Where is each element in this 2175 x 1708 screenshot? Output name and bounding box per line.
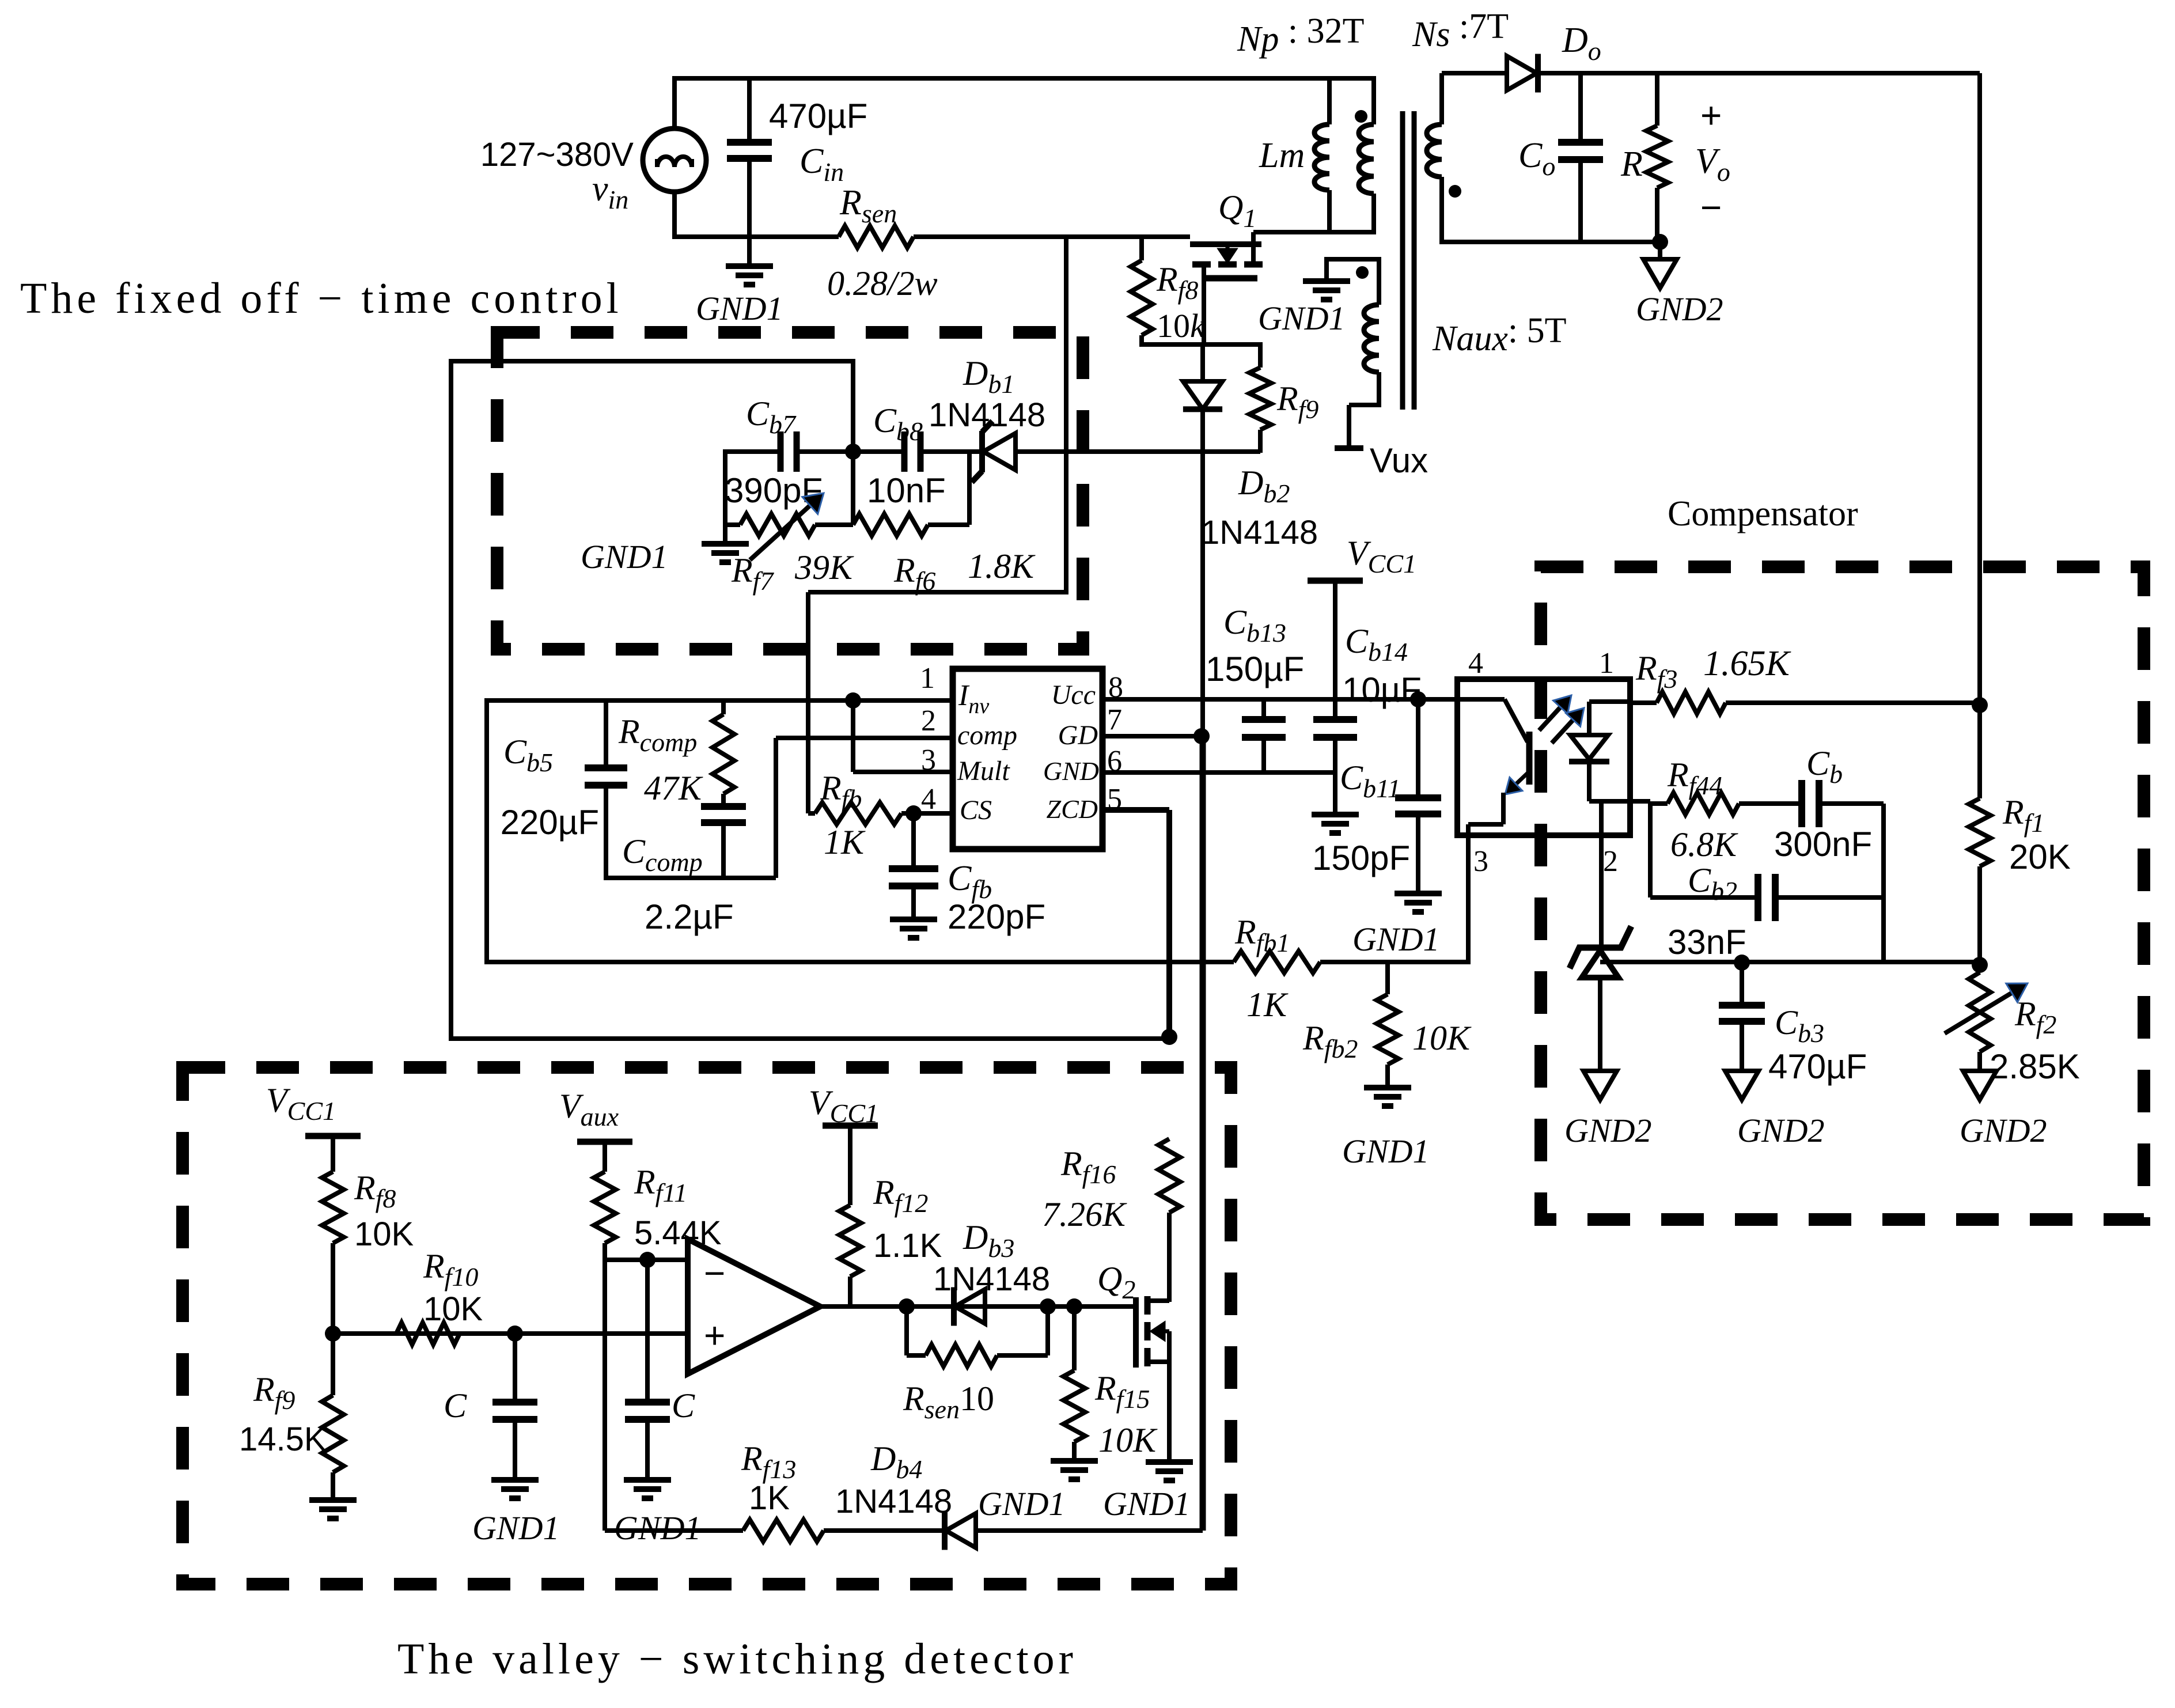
ground GND1 under Rfb2 bbox=[1364, 1088, 1411, 1106]
wire node to Rf9 corner bbox=[1258, 342, 1263, 368]
label 1N4148 Db3 bbox=[933, 1260, 1050, 1298]
ground GND2 output bbox=[1643, 259, 1677, 288]
label 10uF bbox=[1342, 671, 1422, 709]
svg-text:3: 3 bbox=[1473, 845, 1488, 878]
opto light arrows bbox=[1539, 695, 1584, 743]
label Ccomp bbox=[622, 832, 703, 877]
resistor Rcomp bbox=[713, 700, 734, 806]
zener TL431 bbox=[1570, 926, 1631, 978]
wire Inv feedback drop bbox=[484, 698, 489, 964]
label GND2 under Rf2 bbox=[1960, 1112, 2047, 1149]
label GND1 under C right bbox=[614, 1509, 701, 1547]
resistor Rfb2 bbox=[1377, 962, 1399, 1086]
wire vin top lead bbox=[672, 76, 677, 130]
label Do bbox=[1562, 21, 1601, 66]
pin number 8 bbox=[1108, 671, 1123, 704]
resistor Rf2 rheostat bbox=[1945, 965, 2028, 1071]
wire right rail top bbox=[1539, 71, 1980, 75]
label 10K Rf15 bbox=[1098, 1421, 1158, 1459]
label 14.5K bbox=[239, 1421, 327, 1458]
label Cb bbox=[1806, 744, 1843, 789]
capacitor Cin bbox=[727, 76, 772, 265]
resistor Rsen bbox=[839, 226, 914, 248]
wire bottom rail left bbox=[675, 234, 839, 239]
caption Compensator bbox=[1668, 494, 1858, 533]
svg-text:10K: 10K bbox=[423, 1290, 483, 1328]
wire pin8 Ucc line bbox=[1102, 697, 1457, 702]
wire pin1 to pin3 link bbox=[851, 700, 855, 772]
label 220uF bbox=[501, 803, 599, 842]
svg-text:7: 7 bbox=[1107, 703, 1122, 736]
svg-text:10nF: 10nF bbox=[867, 471, 946, 510]
supply Vaux bbox=[577, 1139, 632, 1145]
label Cb3 bbox=[1775, 1003, 1824, 1048]
label Rf44 bbox=[1667, 756, 1722, 800]
label Cb2 bbox=[1688, 861, 1737, 906]
label 470uF Cb3 bbox=[1768, 1047, 1867, 1086]
svg-text:GND1: GND1 bbox=[1258, 300, 1345, 337]
label GND1 under Cin bbox=[696, 290, 783, 327]
svg-text:470µF: 470µF bbox=[769, 97, 867, 135]
svg-text:150pF: 150pF bbox=[1312, 839, 1410, 877]
junction dot C right bbox=[639, 1252, 655, 1268]
wire Q1 drain to primary bbox=[1253, 230, 1374, 234]
ground GND1 at Rf7 bbox=[702, 544, 749, 562]
label C right bbox=[672, 1387, 695, 1425]
junction dot Cb7 Cb8 bbox=[845, 444, 861, 460]
transformer core bbox=[1403, 111, 1414, 410]
svg-text:1: 1 bbox=[1599, 647, 1614, 680]
transistor Q1 bbox=[1190, 232, 1263, 347]
label 127~380V bbox=[480, 136, 634, 173]
svg-text:10K: 10K bbox=[354, 1215, 414, 1253]
label 1N4148 Db1 bbox=[929, 396, 1045, 434]
svg-text:5.44K: 5.44K bbox=[634, 1214, 722, 1252]
wire comp drop bbox=[774, 738, 778, 878]
IC pin label ZCD bbox=[1047, 794, 1098, 824]
dashed box compensator bbox=[1541, 567, 2144, 1220]
label Vo bbox=[1695, 142, 1730, 187]
label Rsen bbox=[839, 183, 897, 228]
label Rf12 bbox=[873, 1173, 928, 1218]
svg-text:10K: 10K bbox=[1412, 1019, 1472, 1057]
wire right rail down bbox=[1977, 73, 1982, 705]
voltage source vin bbox=[643, 128, 706, 192]
svg-text:2: 2 bbox=[921, 705, 936, 737]
ground GND1 under Q2 bbox=[1146, 1462, 1193, 1480]
dashed box valley detector bbox=[183, 1067, 1231, 1584]
phase dot secondary bbox=[1449, 185, 1461, 198]
label GND1 under C left bbox=[472, 1509, 559, 1547]
wire Naux top to ground bbox=[1327, 257, 1381, 280]
label 150uF Cb13 bbox=[1206, 650, 1304, 688]
svg-text:+: + bbox=[1700, 94, 1722, 136]
label VCC1 valley left bbox=[266, 1081, 336, 1126]
ground GND1 at Naux bbox=[1303, 281, 1350, 300]
transformer primary winding bbox=[1359, 76, 1374, 234]
wire CS feed horizontal bbox=[808, 590, 1066, 594]
wire Q1 source node bbox=[1142, 342, 1260, 347]
label 20K bbox=[2009, 838, 2071, 876]
svg-text:0.28/2w: 0.28/2w bbox=[827, 264, 938, 302]
svg-text:GND2: GND2 bbox=[1960, 1112, 2047, 1149]
transistor Q2 bbox=[1136, 1213, 1169, 1461]
opto pin number 4 bbox=[1468, 647, 1483, 680]
svg-text:1K: 1K bbox=[824, 823, 866, 861]
label Q2 bbox=[1097, 1260, 1135, 1304]
wire minus input line bbox=[605, 1258, 688, 1262]
junction dot CS bbox=[905, 805, 922, 821]
svg-text:+: + bbox=[704, 1315, 725, 1356]
svg-text:10µF: 10µF bbox=[1342, 671, 1422, 709]
label Rfb bbox=[820, 769, 862, 813]
svg-text:39K: 39K bbox=[794, 548, 854, 586]
wire pin1 Inv line bbox=[487, 698, 953, 703]
capacitor Cb3 bbox=[1719, 963, 1765, 1071]
wire outer loop bbox=[451, 361, 1167, 1039]
label 0.28/2w bbox=[827, 264, 938, 302]
label Rf1 bbox=[2002, 793, 2044, 838]
label 220pF bbox=[948, 897, 1045, 936]
wire pin3 Mult line bbox=[853, 770, 953, 774]
label Naux: 5T bbox=[1432, 311, 1566, 358]
capacitor Cb7 bbox=[725, 431, 853, 472]
label VCC1 top bbox=[1347, 534, 1416, 578]
wire output gnd stub bbox=[1658, 242, 1662, 259]
capacitor Cb11 bbox=[1395, 699, 1441, 892]
svg-text:GND2: GND2 bbox=[1737, 1112, 1824, 1149]
svg-text:GND1: GND1 bbox=[978, 1485, 1065, 1523]
wire plus input line bbox=[333, 1331, 688, 1336]
junction dot Cb3 bbox=[1734, 955, 1750, 971]
label GND1 at Naux bbox=[1258, 300, 1345, 337]
svg-text:C: C bbox=[672, 1387, 695, 1425]
label R load bbox=[1620, 145, 1643, 184]
resistor Rf8 10K bbox=[322, 1136, 344, 1336]
label 1N4148 Db4 bbox=[835, 1483, 952, 1520]
ground GND1 under Cin bbox=[726, 266, 773, 285]
IC pin label CS bbox=[960, 795, 992, 825]
wire pin6 GND line bbox=[1102, 770, 1335, 775]
resistor Rf11 bbox=[594, 1142, 616, 1260]
svg-text:1N4148: 1N4148 bbox=[1201, 514, 1318, 551]
svg-text:4: 4 bbox=[1468, 647, 1483, 680]
svg-text:2: 2 bbox=[1603, 845, 1618, 878]
label Rf2 bbox=[2014, 995, 2056, 1039]
capacitor Cb14 bbox=[1313, 581, 1357, 813]
label Rf3 bbox=[1635, 649, 1677, 694]
svg-text:10K: 10K bbox=[1098, 1421, 1158, 1459]
wire Cb right leg bbox=[1881, 804, 1886, 964]
diode Db2 bbox=[1183, 344, 1222, 739]
ground GND2 under Cb3 bbox=[1725, 1071, 1759, 1100]
opto pin number 1 bbox=[1599, 647, 1614, 680]
ground GND1 under C right bbox=[624, 1480, 671, 1498]
pin number 3 bbox=[921, 744, 936, 777]
wire feedback line bbox=[487, 960, 1234, 964]
label 470uF bbox=[769, 97, 867, 135]
wire bottom rail right bbox=[914, 234, 1190, 239]
capacitor C right bbox=[625, 1260, 670, 1479]
IC pin label Inv bbox=[958, 679, 989, 718]
diode Do bbox=[1507, 54, 1538, 93]
label Q1 bbox=[1218, 188, 1256, 233]
wire Rf11 down leg bbox=[603, 1260, 607, 1531]
label Ns :7T bbox=[1412, 7, 1509, 54]
junction dot output gnd bbox=[1652, 234, 1668, 250]
label GND2 output bbox=[1636, 290, 1723, 328]
svg-text:1K: 1K bbox=[749, 1479, 790, 1517]
label Rsen bypass bbox=[903, 1380, 994, 1424]
inductor Lm bbox=[1314, 76, 1329, 234]
label Rf15 bbox=[1094, 1369, 1150, 1414]
supply VCC1 valley mid bbox=[823, 1123, 878, 1129]
svg-text:220µF: 220µF bbox=[501, 803, 599, 842]
label Db1 bbox=[963, 354, 1014, 399]
svg-text:47K: 47K bbox=[644, 769, 703, 807]
resistor Rsen bypass bbox=[907, 1306, 1048, 1366]
svg-text:10k: 10k bbox=[1157, 307, 1206, 344]
IC pin label Mult bbox=[957, 756, 1010, 786]
opto LED bbox=[1569, 702, 1650, 949]
svg-text:GND1: GND1 bbox=[581, 538, 668, 575]
zener diode Db1 bbox=[972, 421, 1015, 482]
terminal Vux bar bbox=[1335, 445, 1363, 451]
wire top rail bbox=[675, 76, 1374, 81]
capacitor Cb 300nF bbox=[1802, 780, 1884, 827]
label 150pF bbox=[1312, 839, 1410, 877]
IC pin label comp bbox=[957, 720, 1017, 751]
label Cb8 bbox=[873, 402, 923, 446]
svg-text:6.8K: 6.8K bbox=[1670, 825, 1738, 864]
label GND1 under Q2 bbox=[1103, 1485, 1190, 1523]
svg-text:14.5K: 14.5K bbox=[239, 1421, 327, 1458]
resistor Rf9 top bbox=[1249, 368, 1271, 453]
resistor Rf7 39K rheostat bbox=[725, 493, 824, 560]
label Lm bbox=[1259, 136, 1305, 175]
label 10nF bbox=[867, 471, 946, 510]
label Cb5 bbox=[503, 733, 553, 777]
transformer aux winding Naux bbox=[1364, 259, 1379, 407]
label Rf6 bbox=[893, 551, 935, 596]
svg-text:1.8K: 1.8K bbox=[968, 547, 1036, 585]
label 1.65K bbox=[1703, 644, 1792, 683]
dashed box fixed off-time control bbox=[497, 332, 1083, 649]
label 300nF bbox=[1774, 825, 1872, 864]
wire opamp output bbox=[820, 1304, 1134, 1309]
wire valley bottom line bbox=[605, 1528, 743, 1533]
wire comp bottom line bbox=[606, 876, 776, 880]
caption The fixed off-time control bbox=[20, 274, 623, 323]
wire ZCD vertical bbox=[1166, 810, 1172, 1037]
junction ZCD loop dot bbox=[1161, 1029, 1177, 1045]
svg-text:GND: GND bbox=[1043, 756, 1099, 786]
svg-text:1K: 1K bbox=[1246, 986, 1289, 1024]
svg-text:GND1: GND1 bbox=[696, 290, 783, 327]
op-amp plus sign bbox=[704, 1315, 725, 1356]
label 47K bbox=[644, 769, 703, 807]
label C left bbox=[444, 1387, 467, 1425]
IC pin label Ucc bbox=[1051, 680, 1096, 710]
junction dot Rf8 node bbox=[325, 1326, 341, 1342]
svg-text:comp: comp bbox=[957, 720, 1017, 751]
junction dot output2 bbox=[1040, 1298, 1056, 1315]
junction dot output3 bbox=[1066, 1298, 1082, 1315]
wire Cb7 left leg bbox=[723, 449, 727, 543]
label 2.85K bbox=[1990, 1047, 2080, 1086]
label 10k bbox=[1157, 307, 1206, 344]
pin number 2 bbox=[921, 705, 936, 737]
label Rfb2 bbox=[1302, 1019, 1358, 1063]
capacitor Co bbox=[1558, 73, 1603, 244]
label 1K Rfb bbox=[824, 823, 866, 861]
resistor Rf9 14.5K bbox=[322, 1334, 344, 1499]
resistor Rfb bbox=[808, 802, 953, 824]
capacitor Ccomp bbox=[701, 806, 746, 880]
label 10K Rf10 bbox=[423, 1290, 483, 1328]
label 390pF bbox=[725, 471, 823, 510]
wire vin bottom lead bbox=[672, 192, 677, 239]
capacitor Cb8 bbox=[853, 431, 982, 472]
svg-text:7.26K: 7.26K bbox=[1042, 1195, 1127, 1233]
svg-text:GND1: GND1 bbox=[614, 1509, 701, 1547]
label GND1 under Rfb2 bbox=[1342, 1133, 1429, 1170]
svg-text:Mult: Mult bbox=[957, 756, 1010, 786]
wire compensator node line bbox=[1600, 960, 1980, 964]
label Db3 bbox=[963, 1218, 1014, 1263]
wire secondary bottom bbox=[1442, 240, 1660, 244]
wire Cb2 left leg bbox=[1648, 804, 1653, 897]
resistor Rf3 bbox=[1630, 692, 1980, 714]
label Co bbox=[1518, 136, 1555, 181]
pin number 4 bbox=[921, 783, 936, 816]
wire junction Db1 riser bbox=[1064, 237, 1068, 594]
label Rf11 bbox=[634, 1163, 687, 1207]
junction dot C left bbox=[507, 1326, 523, 1342]
label Rf8 top bbox=[1156, 260, 1198, 305]
svg-text:GND1: GND1 bbox=[1352, 921, 1439, 958]
IC controller box bbox=[953, 669, 1102, 849]
svg-text:GND2: GND2 bbox=[1564, 1112, 1651, 1149]
wire Rf7 Rf6 mid leg bbox=[815, 452, 853, 525]
label VCC1 valley mid bbox=[809, 1084, 878, 1128]
svg-text:1N4148: 1N4148 bbox=[933, 1260, 1050, 1298]
ground GND1 under C left bbox=[491, 1480, 539, 1498]
svg-text:Compensator: Compensator bbox=[1668, 494, 1858, 533]
resistor Rfb1 bbox=[1234, 951, 1470, 973]
svg-text:GD: GD bbox=[1058, 720, 1098, 751]
svg-text:220pF: 220pF bbox=[948, 897, 1045, 936]
resistor Rf16 bbox=[1158, 1139, 1180, 1302]
ground GND1 under Cfb bbox=[890, 919, 937, 938]
label 39K bbox=[794, 548, 854, 586]
label 5.44K bbox=[634, 1214, 722, 1252]
svg-text:300nF: 300nF bbox=[1774, 825, 1872, 864]
svg-text:−: − bbox=[704, 1252, 725, 1294]
junction dot rail Rf3 bbox=[1972, 697, 1988, 713]
svg-text:The valley − switching detecto: The valley − switching detector bbox=[397, 1635, 1077, 1683]
IC pin label GND bbox=[1043, 756, 1099, 786]
svg-text:Ucc: Ucc bbox=[1051, 680, 1096, 710]
label Rf10 bbox=[423, 1247, 478, 1292]
svg-text:C: C bbox=[444, 1387, 467, 1425]
resistor Rf10 bbox=[396, 1323, 460, 1345]
label 6.8K bbox=[1670, 825, 1738, 864]
label Rf13 bbox=[741, 1440, 796, 1484]
svg-text:4: 4 bbox=[921, 783, 936, 816]
label 1N4148 Db2 bbox=[1201, 514, 1318, 551]
junction dot Ucc Cb11 bbox=[1410, 691, 1426, 707]
label 1K Rfb1 bbox=[1246, 986, 1289, 1024]
diode Db4 bbox=[945, 1512, 1203, 1550]
opto pin number 3 bbox=[1473, 845, 1488, 878]
svg-text:Vux: Vux bbox=[1370, 441, 1428, 480]
wire zener to GND2 bbox=[1598, 976, 1602, 1071]
label Cb14 bbox=[1345, 622, 1408, 666]
ground GND2 under Rf2 bbox=[1963, 1071, 1996, 1100]
supply VCC1 top bbox=[1308, 578, 1363, 584]
label GND2 under Cb3 bbox=[1737, 1112, 1824, 1149]
label Cb13 bbox=[1223, 603, 1286, 647]
svg-text:2.85K: 2.85K bbox=[1990, 1047, 2080, 1086]
caption The valley-switching detector bbox=[397, 1635, 1077, 1683]
svg-text:20K: 20K bbox=[2009, 838, 2071, 876]
junction dot GD bbox=[1193, 728, 1210, 744]
label 1K Rf13 bbox=[749, 1479, 790, 1517]
label Rcomp bbox=[618, 713, 697, 757]
pin number 7 bbox=[1107, 703, 1122, 736]
label 1.8K bbox=[968, 547, 1036, 585]
pin number 1 bbox=[920, 662, 935, 695]
label Rf8 valley bbox=[354, 1169, 396, 1213]
svg-text:ZCD: ZCD bbox=[1047, 794, 1098, 824]
label GND2 under zener bbox=[1564, 1112, 1651, 1149]
svg-text:1: 1 bbox=[920, 662, 935, 695]
wire pin7 GD line bbox=[1102, 734, 1202, 739]
ground GND1 under Rf9 bbox=[309, 1500, 357, 1518]
resistor Rf6 bbox=[853, 514, 969, 536]
wire Rf6 right leg bbox=[967, 452, 972, 525]
resistor R load bbox=[1646, 73, 1668, 244]
svg-text:1.65K: 1.65K bbox=[1703, 644, 1792, 683]
label vin bbox=[592, 169, 628, 214]
optocoupler box bbox=[1457, 679, 1630, 835]
label Np : 32T bbox=[1237, 12, 1364, 59]
ground GND1 under Rf15 bbox=[1051, 1461, 1098, 1479]
resistor Rf1 20K bbox=[1969, 705, 1991, 966]
label Rfb1 bbox=[1234, 913, 1290, 957]
phase dot aux bbox=[1356, 266, 1369, 279]
junction dot pin1 bbox=[845, 692, 861, 709]
capacitor Cb13 bbox=[1242, 699, 1286, 772]
svg-text:GND2: GND2 bbox=[1636, 290, 1723, 328]
svg-text:2.2µF: 2.2µF bbox=[645, 897, 734, 936]
op-amp minus sign bbox=[704, 1252, 725, 1294]
svg-text:GND1: GND1 bbox=[1103, 1485, 1190, 1523]
label Rf7 bbox=[731, 551, 774, 596]
svg-text:470µF: 470µF bbox=[1768, 1047, 1867, 1086]
ground GND2 under zener bbox=[1583, 1071, 1617, 1100]
label 1.1K bbox=[873, 1227, 942, 1264]
label Rf16 bbox=[1060, 1145, 1116, 1189]
resistor Rf44 bbox=[1650, 793, 1802, 815]
wire pin2 comp line bbox=[776, 736, 953, 740]
pin number 5 bbox=[1107, 783, 1122, 816]
phase dot primary bbox=[1355, 110, 1367, 123]
opto pin number 2 bbox=[1603, 845, 1618, 878]
resistor Rf8 10k top bbox=[1131, 237, 1153, 347]
capacitor Cb5 bbox=[585, 700, 627, 880]
